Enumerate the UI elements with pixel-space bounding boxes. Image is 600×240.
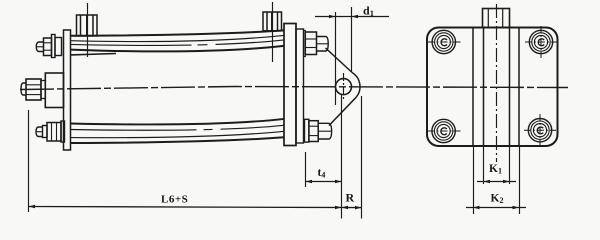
bottom-left stay bolt: tip — [36, 127, 43, 137]
bottom-right stay bolt: tip — [318, 123, 331, 139]
top-right stay bolt: tip — [317, 37, 329, 52]
lug hole — [336, 79, 352, 95]
boss 2 (top filler plug) — [263, 12, 282, 31]
bottom tie tube: inner line — [71, 131, 285, 137]
middle nozzle: washer — [41, 81, 45, 99]
top tie tube: inner line — [71, 35, 285, 41]
corner bolt top-left — [428, 30, 461, 53]
corner bolt top-right — [525, 26, 557, 58]
bottom tie tube: inner dashed line — [71, 125, 285, 130]
top tie tube: inner dashed line — [71, 40, 285, 46]
corner bolt bottom-left — [428, 119, 461, 142]
top boss (end view) — [483, 9, 510, 28]
mounting lug bracket: outer arc — [352, 73, 360, 98]
bottom-left stay bolt: neck — [43, 126, 48, 138]
bottom-right stay bolt: hex nut — [309, 121, 318, 142]
left tube sheet plate — [64, 30, 71, 150]
K1 dimension line — [477, 181, 516, 183]
K2 extension lines — [473, 147, 475, 214]
top-left stay bolt: hex nut — [44, 38, 52, 56]
mounting lug bracket: top edge — [326, 48, 353, 73]
lug hole vertical centerline — [343, 73, 345, 100]
right tube sheet plate — [284, 24, 296, 146]
bottom-right washer — [305, 119, 309, 142]
top-right stay bolt: hex nut — [305, 32, 316, 55]
svg-text:R: R — [346, 191, 355, 205]
top-right washer — [304, 31, 306, 57]
top-left stay bolt: washer — [52, 35, 56, 58]
mounting lug bracket: bottom edge — [329, 97, 356, 125]
bottom tie tube: bottom edge — [71, 137, 285, 143]
top tie tube: bottom edge — [71, 46, 285, 52]
bottom tie tube: top edge — [71, 119, 285, 125]
bottom-left stay bolt: washer — [61, 121, 65, 142]
top-left stay bolt: spacer — [55, 38, 62, 56]
bottom dimension line L6+S / R — [29, 207, 362, 208]
K1 extension lines — [483, 147, 485, 184]
dimension t4 line — [306, 181, 342, 183]
middle nozzle: tip — [21, 83, 26, 95]
K2 dimension line — [466, 207, 526, 209]
main axis centerline — [20, 87, 568, 90]
vertical centerline — [496, 4, 498, 162]
svg-text:L6+S: L6+S — [161, 194, 188, 206]
top tie tube: sleeve line near plate — [71, 54, 117, 55]
top tie tube: top edge — [71, 30, 285, 35]
bottom-left stay bolt: hex nut — [47, 123, 61, 142]
dimension d1 line with arrows — [315, 16, 389, 18]
boss 1 centerline — [87, 3, 89, 57]
dimension d1 extension lines — [335, 12, 337, 105]
middle nozzle: hex — [26, 79, 41, 100]
boss 1 (top filler plug) — [77, 15, 98, 36]
boss 2 centerline — [272, 2, 274, 62]
end plate outline — [427, 28, 558, 147]
top-left stay bolt: tip — [36, 42, 43, 52]
right cover plate — [296, 29, 304, 143]
R / t4 extension lines — [341, 95, 343, 219]
corner bolt bottom-right — [524, 114, 556, 147]
body wall lines — [472, 28, 474, 147]
